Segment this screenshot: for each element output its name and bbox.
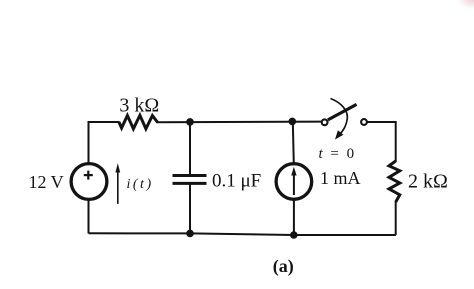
node: junction dot, top of capacitor branch xyxy=(186,118,194,126)
svg-text:0.1 μF: 0.1 μF xyxy=(212,171,261,192)
wire: source bottom to bottom rail xyxy=(88,199,90,233)
wire: top middle segment (resistor to switch) xyxy=(157,121,322,124)
wire: capacitor branch bottom xyxy=(189,185,191,234)
resistor R2 2 kOhm zigzag (vertical) xyxy=(389,161,400,202)
current source arrow (points up) xyxy=(291,167,296,195)
resistor R1 3 kOhm zigzag xyxy=(119,115,158,129)
current arrow i(t) xyxy=(115,163,120,204)
wire: switch to top-right corner, down to resistor xyxy=(367,122,396,162)
svg-text:2 kΩ: 2 kΩ xyxy=(408,171,448,193)
node: junction dot, bottom of capacitor branch xyxy=(186,230,194,238)
current source I1 (1 mA) circle xyxy=(276,164,312,200)
svg-text:3 kΩ: 3 kΩ xyxy=(119,95,159,117)
wire: current source branch bottom xyxy=(293,199,295,235)
svg-text:t = 0: t = 0 xyxy=(319,146,357,162)
polarity + mark inside source xyxy=(84,171,93,180)
voltage source V1 (12 V) circle xyxy=(71,164,107,200)
svg-text:i(t): i(t) xyxy=(127,177,154,192)
svg-text:(a): (a) xyxy=(273,256,294,277)
capacitor C1 plates xyxy=(173,176,207,184)
switch S1 terminal right xyxy=(361,119,367,125)
svg-text:1 mA: 1 mA xyxy=(320,168,361,188)
wire: capacitor branch top xyxy=(189,121,191,175)
svg-text:12 V: 12 V xyxy=(29,172,64,192)
node: junction dot, bottom of current source branch xyxy=(290,231,298,239)
wire: right vertical bottom (resistor to bottom rail) xyxy=(395,201,397,235)
switch S1 terminal left xyxy=(322,119,328,125)
switch S1 blade (open, angled up-right) xyxy=(328,104,357,120)
wire: left vertical + top-left segment (source top to resistor) xyxy=(89,122,120,164)
switch actuation arrow (curved, closing at t=0) xyxy=(331,99,348,140)
wire: bottom rail xyxy=(89,233,396,235)
node: junction dot, top of current source branch xyxy=(289,118,297,126)
wire: current source branch top xyxy=(293,121,294,165)
